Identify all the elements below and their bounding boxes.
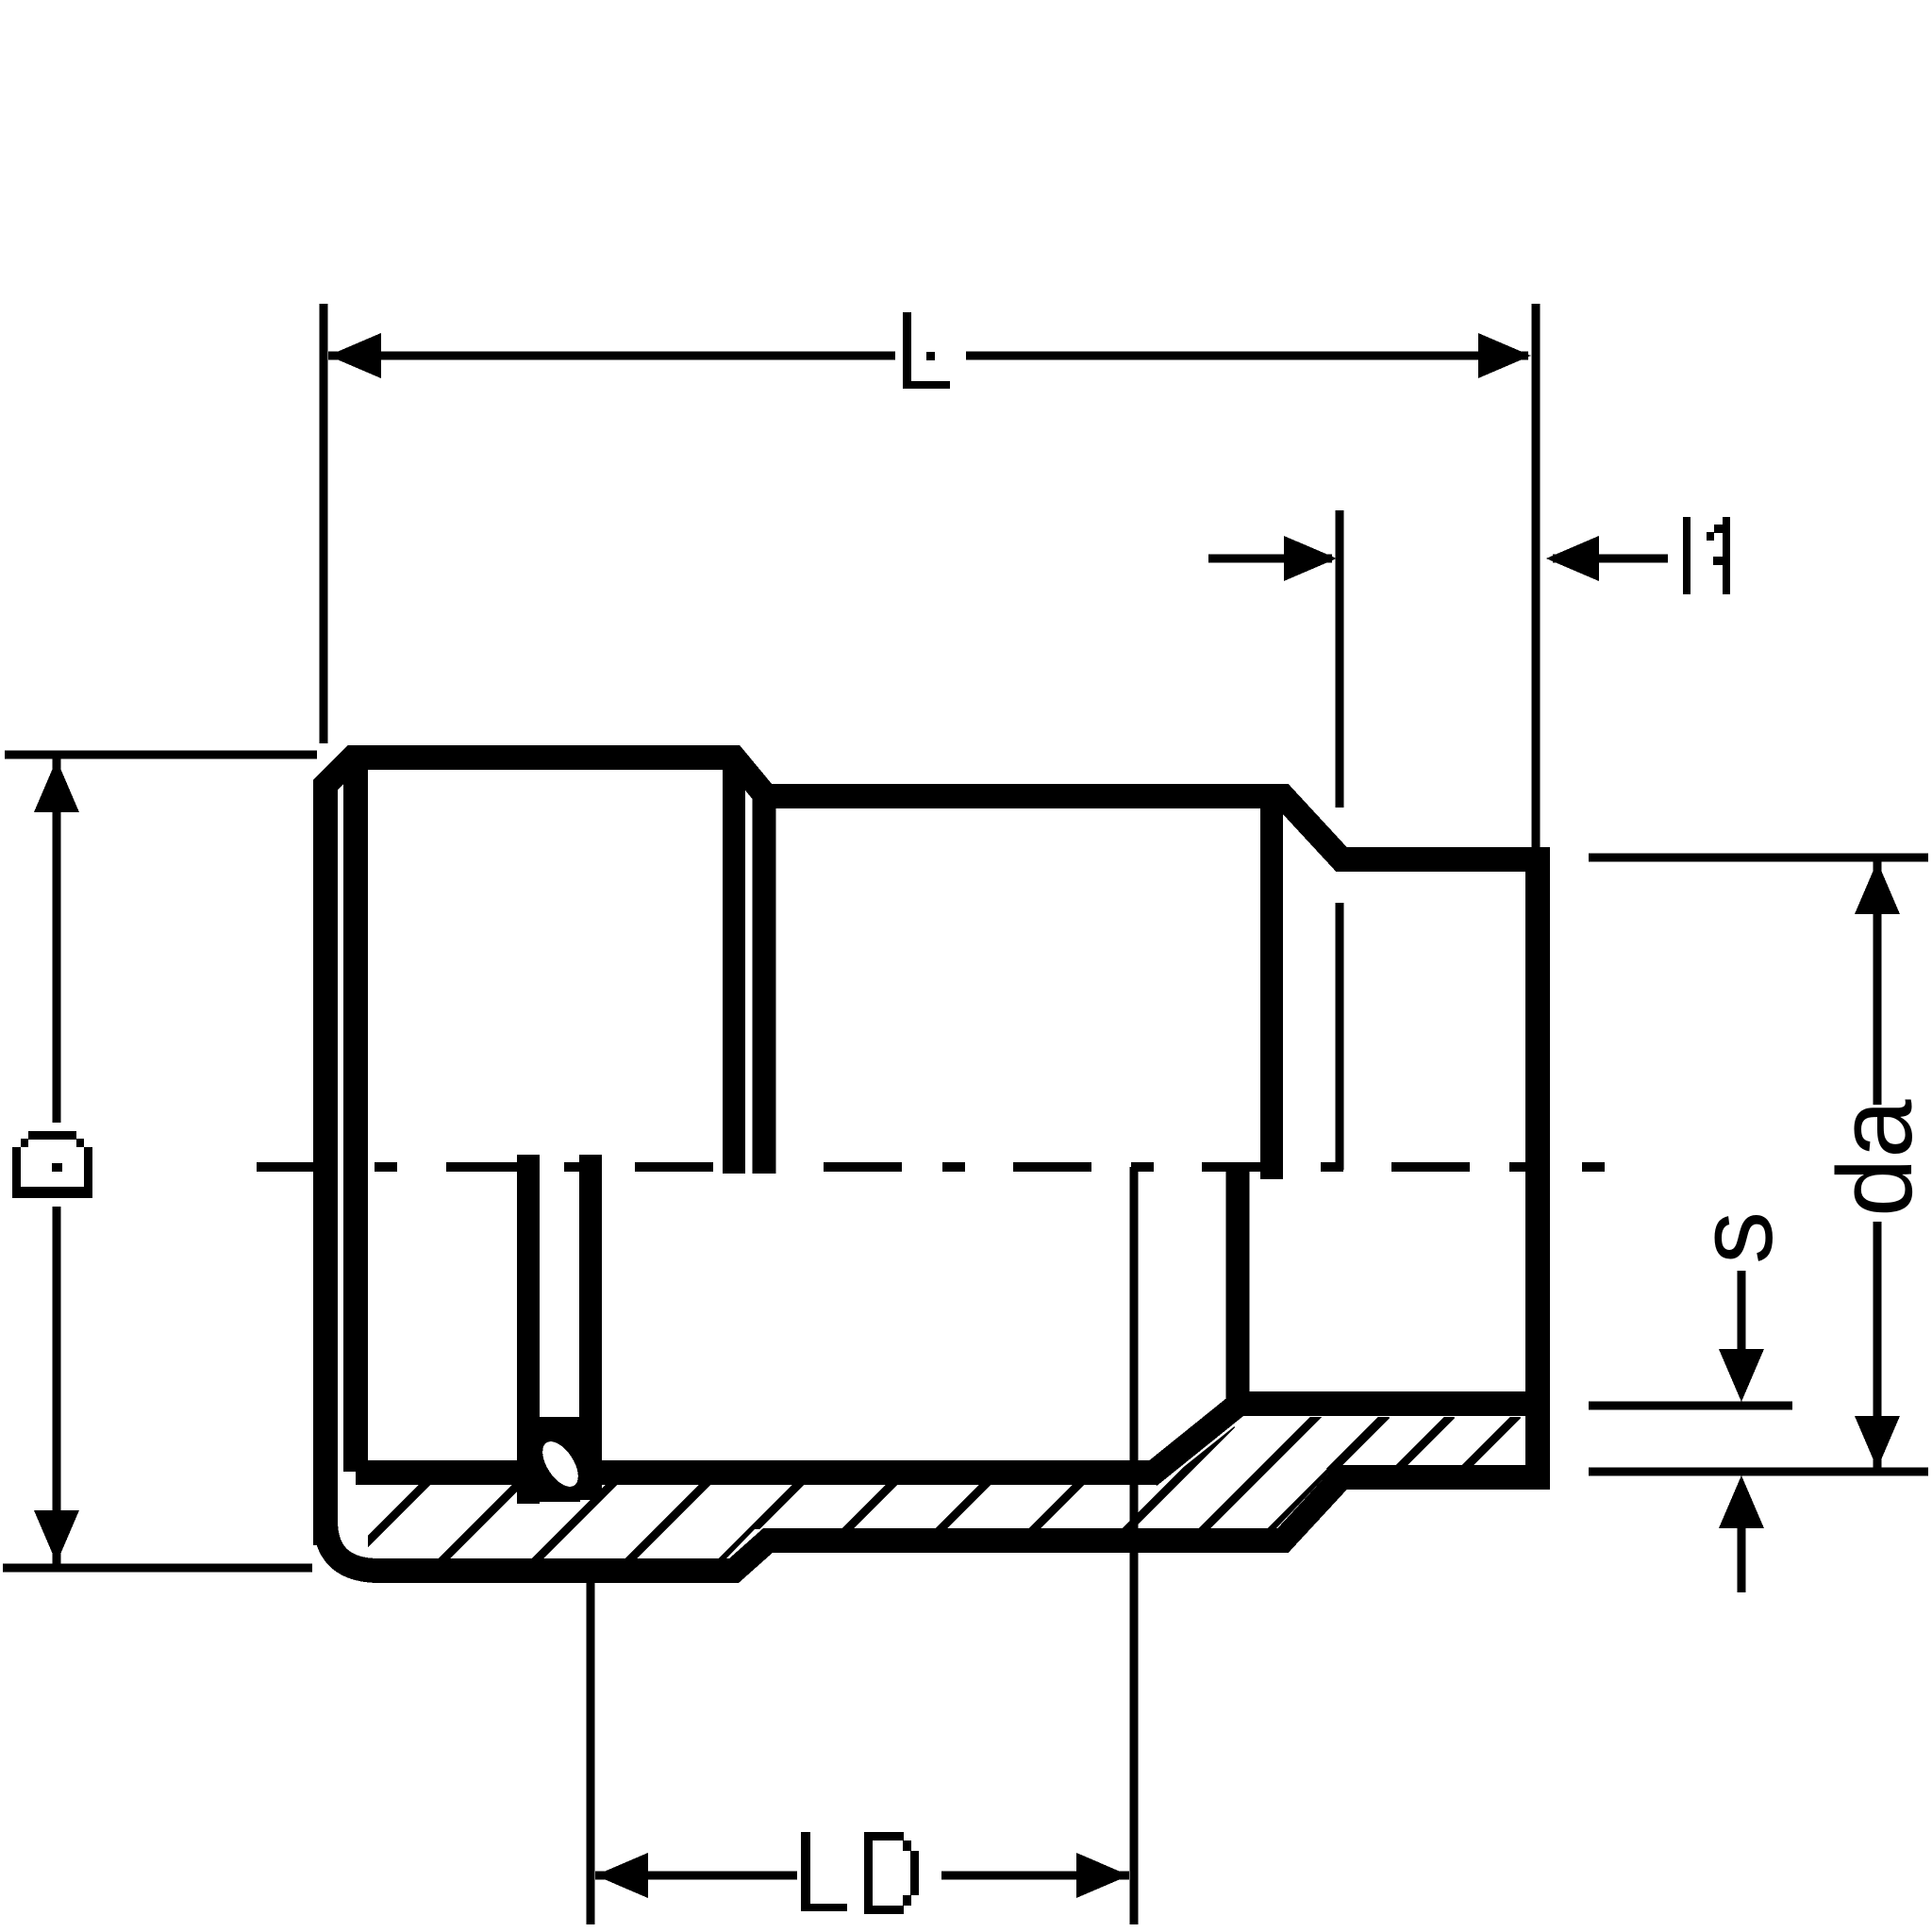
svg-text:s: s: [1676, 1211, 1794, 1264]
dimension da: [1589, 858, 1928, 1472]
da dimension line: [1874, 860, 1882, 1468]
LD right arrowhead: [1076, 1853, 1129, 1898]
da top arrowhead: [1855, 861, 1900, 914]
da top extension line: [1589, 854, 1928, 862]
socket bore line (section): [356, 1460, 1157, 1485]
label l1: [1683, 517, 1730, 594]
lower bore plug blob: [540, 1417, 580, 1502]
L left extension line: [320, 304, 328, 743]
s top extension line: [1589, 1402, 1792, 1410]
dimension D: [3, 755, 317, 1568]
body outer profile: [325, 758, 1538, 1571]
L dimension line: [328, 352, 1528, 360]
l1 right arrowhead: [1546, 536, 1599, 581]
l1 left arrowhead: [1284, 536, 1337, 581]
L right extension line: [1532, 304, 1541, 854]
socket depth line right (upper half): [753, 795, 776, 1174]
svg-text:da: da: [1816, 1099, 1932, 1217]
bore step vertical (lower half): [1226, 1172, 1250, 1404]
label D (rotated): [12, 1131, 92, 1198]
l1 left leader: [1208, 555, 1332, 563]
socket mouth inner line: [343, 766, 368, 1472]
internal cone (section): [1149, 1402, 1241, 1476]
LD left extension line: [587, 1579, 595, 1924]
da bottom arrowhead: [1855, 1416, 1900, 1469]
s upper leader: [1738, 1271, 1746, 1351]
l1 left extension line: [1336, 510, 1344, 1170]
s lower arrowhead: [1719, 1475, 1764, 1528]
dimension LD: [591, 1167, 1134, 1924]
plug ellipse: [536, 1436, 586, 1493]
da/s bottom extension line: [1589, 1468, 1928, 1476]
dimension l1: [1208, 510, 1668, 1170]
label LD: [801, 1832, 919, 1914]
centerline: [257, 1162, 1605, 1172]
LD right extension line: [1130, 1167, 1139, 1924]
label da (rotated): [1816, 1099, 1932, 1217]
D top arrowhead: [34, 759, 79, 812]
L right arrowhead: [1478, 333, 1531, 378]
D dimension line: [53, 758, 61, 1564]
dimension L: [324, 304, 1536, 854]
dimension s: [1589, 1271, 1792, 1592]
label L: [903, 312, 950, 389]
D bottom arrowhead: [34, 1510, 79, 1563]
D top extension line: [5, 751, 317, 759]
LD dimension line: [595, 1872, 1129, 1880]
D bottom extension line: [3, 1564, 312, 1573]
socket depth line left (upper half): [723, 770, 745, 1174]
s lower leader: [1738, 1526, 1746, 1592]
cone junction line (upper half): [1260, 808, 1283, 1179]
label s (rotated): [1676, 1211, 1794, 1264]
LD left arrowhead: [595, 1853, 648, 1898]
hatch: [306, 1412, 1518, 1604]
L left arrowhead: [328, 333, 381, 378]
lower bore vertical right: [579, 1155, 602, 1500]
s upper arrowhead: [1719, 1349, 1764, 1402]
l1 right leader: [1553, 555, 1668, 563]
small bore line (section): [1229, 1391, 1538, 1416]
lower bore vertical left: [517, 1155, 540, 1504]
